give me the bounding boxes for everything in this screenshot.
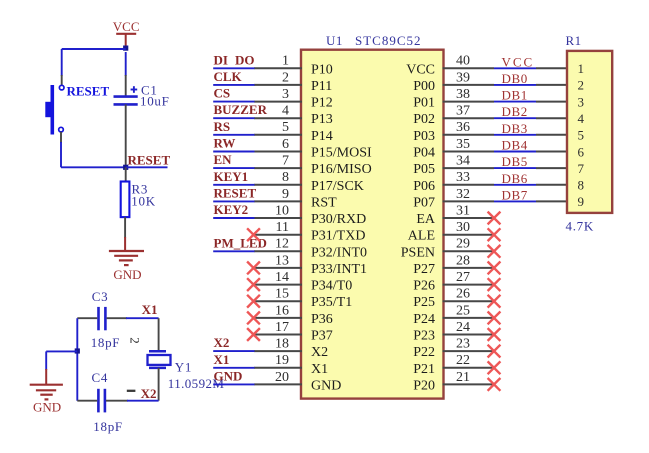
- svg-text:CLK: CLK: [214, 69, 243, 84]
- capacitor C1: [114, 83, 170, 109]
- svg-text:P20: P20: [413, 378, 435, 393]
- junction node VCC/C1: [123, 46, 128, 51]
- svg-text:40: 40: [456, 54, 470, 69]
- svg-text:19: 19: [275, 353, 289, 368]
- no-connect X pin 21: [488, 378, 501, 391]
- svg-text:7: 7: [578, 161, 585, 176]
- pin 36 of U1 (P03): [413, 120, 494, 144]
- svg-text:DB7: DB7: [502, 187, 528, 202]
- no-connect X pin 31: [488, 212, 501, 225]
- resistor network R1 body: [567, 51, 612, 213]
- svg-text:38: 38: [456, 87, 470, 102]
- wire: [125, 75, 127, 96]
- no-connect X pin 30: [488, 228, 501, 241]
- pin 28 of U1 (P27): [413, 253, 494, 277]
- svg-text:GND: GND: [33, 400, 61, 415]
- svg-text:EN: EN: [214, 152, 233, 167]
- svg-text:P06: P06: [413, 179, 435, 194]
- svg-text:9: 9: [282, 187, 289, 202]
- pin 12 of U1 (P32/INT0): [254, 237, 367, 261]
- svg-text:11: 11: [276, 220, 289, 235]
- wire: [125, 104, 127, 167]
- wire: [125, 52, 127, 76]
- svg-text:24: 24: [456, 320, 470, 335]
- wire: [213, 350, 254, 352]
- svg-text:VCC: VCC: [113, 19, 140, 34]
- wire: [494, 200, 536, 202]
- wire: [60, 142, 62, 167]
- wire: [125, 167, 127, 182]
- svg-text:X1: X1: [142, 302, 158, 317]
- wire: [213, 383, 254, 385]
- svg-text:29: 29: [456, 237, 470, 252]
- svg-text:P30/RXD: P30/RXD: [311, 212, 366, 227]
- op IC U1 body: [301, 50, 444, 399]
- wire: [107, 317, 127, 319]
- svg-text:P13: P13: [311, 112, 333, 127]
- svg-text:PSEN: PSEN: [401, 245, 435, 260]
- wire: [158, 368, 160, 401]
- svg-text:36: 36: [456, 120, 470, 135]
- wire: [77, 317, 97, 319]
- svg-text:X2: X2: [141, 386, 157, 401]
- svg-text:DB5: DB5: [502, 154, 528, 169]
- pin 1 of U1 (P10): [254, 54, 333, 78]
- svg-text:RESET: RESET: [128, 152, 171, 167]
- svg-text:P31/TXD: P31/TXD: [311, 229, 365, 244]
- pin 32 of U1 (P07): [413, 187, 494, 211]
- svg-text:RST: RST: [311, 195, 337, 210]
- wire: [536, 151, 568, 153]
- svg-text:P22: P22: [413, 345, 435, 360]
- svg-text:GND: GND: [113, 267, 141, 282]
- svg-text:DB0: DB0: [502, 71, 528, 86]
- pin 13 of U1 (P33/INT1): [254, 253, 367, 277]
- wire: [77, 400, 97, 402]
- wire: [213, 217, 254, 219]
- svg-text:P34/T0: P34/T0: [311, 279, 352, 294]
- svg-text:P04: P04: [413, 146, 435, 161]
- svg-text:U1: U1: [326, 33, 343, 48]
- wire: [536, 117, 568, 119]
- svg-text:7: 7: [282, 154, 289, 169]
- svg-text:2: 2: [128, 337, 143, 344]
- svg-text:C4: C4: [92, 370, 109, 385]
- wire: [536, 84, 568, 86]
- capacitor C4: [92, 370, 123, 434]
- svg-text:18pF: 18pF: [93, 419, 123, 434]
- svg-text:5: 5: [578, 128, 585, 143]
- svg-text:P33/INT1: P33/INT1: [311, 262, 367, 277]
- svg-text:6: 6: [578, 144, 585, 159]
- wire: [60, 132, 62, 143]
- svg-text:KEY1: KEY1: [214, 169, 249, 184]
- pin 15 of U1 (P35/T1): [254, 287, 352, 311]
- svg-text:PM_LED: PM_LED: [214, 235, 267, 250]
- svg-text:P26: P26: [413, 279, 435, 294]
- wire: [494, 67, 536, 69]
- svg-text:6: 6: [282, 137, 289, 152]
- svg-text:P32/INT0: P32/INT0: [311, 245, 367, 260]
- wire: [494, 134, 536, 136]
- wire: [536, 101, 568, 103]
- wire: [127, 400, 159, 402]
- pin 1 label of Y1: [127, 390, 136, 392]
- svg-text:37: 37: [456, 104, 470, 119]
- wire: [536, 184, 568, 186]
- wire: [213, 134, 254, 136]
- pin 10 of U1 (P30/RXD): [254, 203, 366, 227]
- svg-text:P07: P07: [413, 195, 435, 210]
- wire: [126, 317, 159, 319]
- wire: [45, 351, 47, 370]
- svg-text:X2: X2: [214, 335, 230, 350]
- no-connect X pin 24: [488, 328, 501, 341]
- pin 6 of U1 (P15/MOSI): [254, 137, 372, 161]
- crystal Y1: [148, 351, 225, 391]
- svg-text:4.7K: 4.7K: [566, 219, 594, 234]
- pin 33 of U1 (P06): [413, 170, 494, 194]
- svg-text:P21: P21: [413, 362, 435, 377]
- svg-text:DI: DI: [214, 52, 228, 67]
- svg-text:P27: P27: [413, 262, 435, 277]
- svg-text:Y1: Y1: [175, 360, 192, 375]
- svg-text:33: 33: [456, 170, 470, 185]
- svg-text:X2: X2: [311, 345, 328, 360]
- svg-text:P37: P37: [311, 329, 333, 344]
- svg-text:13: 13: [275, 253, 289, 268]
- svg-text:31: 31: [456, 203, 470, 218]
- pin 34 of U1 (P05): [413, 154, 494, 178]
- svg-text:18: 18: [275, 337, 289, 352]
- svg-text:P11: P11: [311, 79, 332, 94]
- wire: [536, 167, 568, 169]
- pin 20 of U1 (GND): [254, 370, 341, 394]
- svg-text:P24: P24: [413, 312, 435, 327]
- pin 14 of U1 (P34/T0): [254, 270, 352, 294]
- svg-text:DB6: DB6: [502, 171, 528, 186]
- svg-text:P16/MISO: P16/MISO: [311, 162, 372, 177]
- svg-text:DB4: DB4: [502, 138, 528, 153]
- capacitor C3: [91, 289, 121, 350]
- svg-text:9: 9: [578, 194, 585, 209]
- resistor R3: [121, 181, 156, 217]
- wire: [494, 84, 536, 86]
- svg-text:16: 16: [275, 303, 289, 318]
- wire: [213, 151, 254, 153]
- pin 27 of U1 (P26): [413, 270, 494, 294]
- svg-text:14: 14: [275, 270, 289, 285]
- svg-text:28: 28: [456, 253, 470, 268]
- svg-text:VCC: VCC: [406, 62, 435, 77]
- pin 35 of U1 (P04): [413, 137, 494, 161]
- no-connect X pin 13: [247, 262, 260, 275]
- pin 24 of U1 (P23): [413, 320, 494, 344]
- svg-text:ALE: ALE: [408, 229, 435, 244]
- no-connect X pin 25: [488, 312, 501, 325]
- svg-text:25: 25: [456, 303, 470, 318]
- svg-text:GND: GND: [311, 378, 341, 393]
- pin 21 of U1 (P20): [413, 370, 494, 394]
- svg-text:X1: X1: [214, 352, 230, 367]
- pin 29 of U1 (PSEN): [401, 237, 494, 261]
- wire: [213, 200, 254, 202]
- svg-text:P00: P00: [413, 79, 435, 94]
- pin 4 of U1 (P13): [254, 104, 333, 128]
- svg-text:CS: CS: [214, 86, 231, 101]
- svg-text:10: 10: [275, 203, 289, 218]
- ground GND (crystal): [30, 369, 63, 415]
- svg-text:C3: C3: [92, 289, 109, 304]
- pin 40 of U1 (VCC): [406, 54, 494, 78]
- svg-text:RESET: RESET: [214, 185, 257, 200]
- svg-text:3: 3: [282, 87, 289, 102]
- svg-text:10uF: 10uF: [140, 93, 170, 108]
- pin 8 of U1 (P17/SCK): [254, 170, 364, 194]
- wire: [213, 84, 254, 86]
- wire: [213, 184, 254, 186]
- svg-text:VCC: VCC: [502, 54, 535, 69]
- wire: [213, 117, 254, 119]
- svg-text:P14: P14: [311, 129, 333, 144]
- ground GND (reset): [109, 237, 144, 282]
- svg-text:32: 32: [456, 187, 470, 202]
- junction node RESET: [123, 165, 128, 170]
- svg-text:STC89C52: STC89C52: [355, 33, 422, 48]
- no-connect X pin 29: [488, 245, 501, 258]
- wire: [213, 67, 254, 69]
- svg-text:17: 17: [275, 320, 289, 335]
- svg-text:P23: P23: [413, 329, 435, 344]
- pin 31 of U1 (EA): [416, 203, 494, 227]
- wire: [62, 48, 126, 50]
- wire: [494, 117, 536, 119]
- wire: [106, 400, 128, 402]
- svg-text:2: 2: [282, 70, 289, 85]
- svg-text:P15/MOSI: P15/MOSI: [311, 146, 372, 161]
- svg-text:22: 22: [456, 353, 470, 368]
- no-connect X pin 22: [488, 361, 501, 374]
- wire: [494, 167, 536, 169]
- wire: [213, 367, 254, 369]
- svg-text:21: 21: [456, 370, 470, 385]
- svg-text:P36: P36: [311, 312, 333, 327]
- svg-text:1: 1: [578, 61, 585, 76]
- pin 7 of U1 (P16/MISO): [254, 154, 372, 178]
- wire: [213, 101, 254, 103]
- svg-text:12: 12: [275, 237, 289, 252]
- svg-text:P12: P12: [311, 96, 333, 111]
- svg-text:P17/SCK: P17/SCK: [311, 179, 364, 194]
- pin 26 of U1 (P25): [413, 287, 494, 311]
- wire: [536, 134, 568, 136]
- svg-text:35: 35: [456, 137, 470, 152]
- wire: [213, 167, 254, 169]
- svg-text:DO: DO: [235, 52, 255, 67]
- no-connect X pin 23: [488, 345, 501, 358]
- svg-text:RW: RW: [214, 136, 236, 151]
- pin 37 of U1 (P02): [413, 104, 494, 128]
- svg-text:EA: EA: [416, 212, 436, 227]
- svg-text:10K: 10K: [131, 194, 156, 209]
- pin 11 of U1 (P31/TXD): [254, 220, 365, 244]
- svg-text:4: 4: [282, 104, 289, 119]
- pin 5 of U1 (P14): [254, 120, 333, 144]
- svg-text:8: 8: [578, 178, 585, 193]
- no-connect X pin 27: [488, 278, 501, 291]
- wire: [158, 318, 160, 351]
- svg-text:DB2: DB2: [502, 104, 528, 119]
- wire: [494, 101, 536, 103]
- wire: [76, 318, 78, 401]
- wire: [494, 184, 536, 186]
- svg-text:R1: R1: [566, 33, 582, 48]
- wire: [494, 151, 536, 153]
- no-connect X pin 26: [488, 295, 501, 308]
- pin 38 of U1 (P01): [413, 87, 494, 111]
- svg-text:27: 27: [456, 270, 470, 285]
- pin 18 of U1 (X2): [254, 337, 328, 361]
- svg-text:3: 3: [578, 94, 585, 109]
- no-connect X pin 16: [247, 312, 260, 325]
- svg-text:34: 34: [456, 154, 470, 169]
- wire: [124, 217, 126, 238]
- svg-text:1: 1: [282, 54, 289, 69]
- pin 30 of U1 (ALE): [408, 220, 494, 244]
- pin 17 of U1 (P37): [254, 320, 333, 344]
- svg-text:P25: P25: [413, 295, 435, 310]
- svg-text:P05: P05: [413, 162, 435, 177]
- svg-text:P02: P02: [413, 112, 435, 127]
- svg-text:39: 39: [456, 70, 470, 85]
- svg-text:15: 15: [275, 287, 289, 302]
- svg-text:30: 30: [456, 220, 470, 235]
- svg-text:BUZZER: BUZZER: [214, 102, 268, 117]
- svg-text:X1: X1: [311, 362, 328, 377]
- power VCC: [113, 19, 140, 48]
- no-connect X pin 17: [247, 328, 260, 341]
- pin 22 of U1 (P21): [413, 353, 494, 377]
- svg-text:20: 20: [275, 370, 289, 385]
- svg-text:4: 4: [578, 111, 585, 126]
- pin 9 of U1 (RST): [254, 187, 337, 211]
- svg-text:8: 8: [282, 170, 289, 185]
- wire: [213, 250, 254, 252]
- no-connect X pin 15: [247, 295, 260, 308]
- no-connect X pin 11: [247, 228, 260, 241]
- svg-text:2: 2: [578, 78, 585, 93]
- wire: [536, 67, 568, 69]
- wire: [61, 75, 63, 85]
- svg-text:P35/T1: P35/T1: [311, 295, 352, 310]
- svg-text:GND: GND: [214, 368, 243, 383]
- wire: [536, 200, 568, 202]
- svg-text:RS: RS: [214, 119, 231, 134]
- pin 16 of U1 (P36): [254, 303, 333, 327]
- no-connect X pin 28: [488, 262, 501, 275]
- pin 19 of U1 (X1): [254, 353, 328, 377]
- wire: [61, 166, 126, 168]
- svg-text:P03: P03: [413, 129, 435, 144]
- wire: [46, 350, 77, 352]
- svg-text:DB3: DB3: [502, 121, 528, 136]
- svg-text:18pF: 18pF: [91, 335, 121, 350]
- pin 25 of U1 (P24): [413, 303, 494, 327]
- pin 23 of U1 (P22): [413, 337, 494, 361]
- svg-text:23: 23: [456, 337, 470, 352]
- svg-text:DB1: DB1: [502, 88, 528, 103]
- svg-text:KEY2: KEY2: [214, 202, 249, 217]
- switch S1 RESET button: [45, 84, 109, 135]
- svg-text:5: 5: [282, 120, 289, 135]
- pin 3 of U1 (P12): [254, 87, 333, 111]
- no-connect X pin 14: [247, 278, 260, 291]
- wire: [61, 49, 63, 76]
- wire: [126, 166, 168, 168]
- svg-text:P01: P01: [413, 96, 435, 111]
- junction node OSC: [75, 348, 80, 353]
- svg-text:P10: P10: [311, 62, 333, 77]
- pin 2 of U1 (P11): [254, 70, 332, 94]
- svg-text:RESET: RESET: [67, 84, 110, 99]
- pin 39 of U1 (P00): [413, 70, 494, 94]
- svg-text:26: 26: [456, 287, 470, 302]
